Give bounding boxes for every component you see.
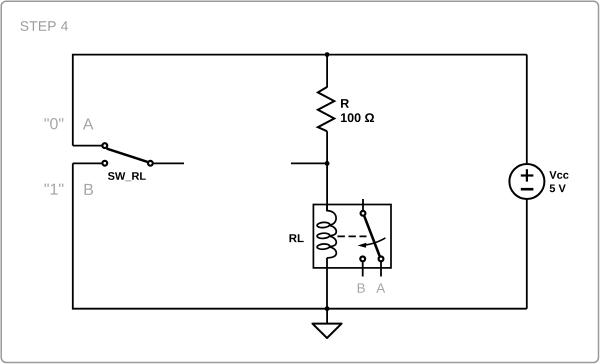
relay contact A terminal <box>379 257 384 262</box>
label B (switch) <box>85 184 94 195</box>
node bottom junction <box>325 306 330 311</box>
node top junction <box>325 52 330 57</box>
label "0" <box>44 118 63 129</box>
relay contact B terminal <box>360 257 365 262</box>
relay common pin top <box>362 199 364 211</box>
wire resistor to relay <box>326 131 328 211</box>
relay contact B pin <box>362 262 364 277</box>
wire coil to bottom rail <box>326 258 328 309</box>
source Vcc <box>509 55 544 199</box>
label R <box>341 99 349 108</box>
wire switch pole output <box>153 162 184 164</box>
relay common contact <box>361 211 366 216</box>
wire top rail <box>73 55 527 146</box>
wire stub into resistor node <box>291 162 327 164</box>
relay coil <box>317 205 336 258</box>
wire switch throw A stub <box>73 145 102 147</box>
ground <box>312 309 341 338</box>
resistor R <box>318 87 334 131</box>
wire switch throw B stub <box>73 162 102 164</box>
title STEP 4 <box>20 21 68 31</box>
label A (switch) <box>83 118 94 129</box>
relay RL box <box>313 205 391 268</box>
wire top dot to resistor <box>326 55 328 88</box>
relay contact A pin <box>380 262 382 277</box>
label A (relay) <box>376 283 385 292</box>
value 5 V <box>550 185 566 193</box>
relay armature blade <box>364 216 379 256</box>
node middle junction <box>325 161 330 166</box>
value 100 Ω <box>341 113 374 122</box>
wire right rail lower <box>526 199 528 309</box>
label "1" <box>44 184 63 195</box>
label RL <box>289 234 303 242</box>
label B (relay) <box>358 283 365 292</box>
relay motion arrow <box>366 238 386 245</box>
label SW_RL <box>108 172 146 181</box>
label Vcc <box>549 171 568 179</box>
wire bottom rail <box>73 163 527 308</box>
relay actuation dashed link <box>338 235 367 237</box>
switch SW_RL <box>102 143 152 166</box>
